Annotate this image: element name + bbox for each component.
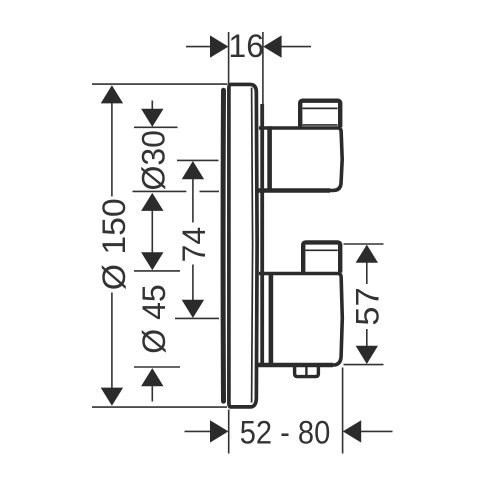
arrowhead O45 bottom [141, 368, 163, 386]
arrowhead O150 top [101, 85, 123, 103]
lower handle cap [303, 242, 340, 272]
dim 16 leader left [186, 46, 211, 48]
upper cap bottom line [303, 124, 338, 126]
svg-text:Ø 150: Ø 150 [96, 198, 132, 290]
lower handle body bottom edge [257, 363, 334, 367]
lower cap inner line [305, 249, 337, 251]
dim O45 tick top [134, 270, 180, 272]
svg-text:74: 74 [176, 227, 212, 263]
svg-text:57: 57 [350, 287, 386, 326]
dim O150 stem lower [111, 293, 113, 389]
svg-text:Ø30: Ø30 [136, 130, 172, 190]
arrowhead 52-80 left [210, 420, 228, 442]
dim 74 stem upper [192, 179, 194, 223]
dim O150 extension bottom [92, 406, 227, 408]
dim 16 extension line right [262, 32, 264, 121]
dim 52-80 leader left [185, 430, 211, 432]
arrowhead 16 right [263, 35, 281, 57]
dim O30 tick bottom right [200, 190, 220, 192]
dim 74 tick top [177, 159, 219, 161]
plate inner thin line [252, 88, 253, 403]
dim 57 tick top [344, 243, 384, 245]
arrowhead O30 top [141, 109, 163, 127]
svg-text:52 - 80: 52 - 80 [240, 415, 331, 451]
lower outlet notch [295, 365, 319, 376]
arrowhead 74 top [182, 161, 204, 179]
lower outlet notch divider [305, 364, 307, 376]
plate back sleeve line [260, 104, 264, 365]
dim 74 tick bottom [175, 317, 219, 319]
dim O150 extension top [92, 83, 227, 85]
arrowhead 57 top [356, 245, 378, 263]
upper handle body U1 [259, 128, 342, 190]
dim O30 tick bottom left [133, 190, 187, 192]
upper handle body bottom edge [257, 188, 330, 192]
dim O45 stem bottom [151, 386, 153, 401]
upper handle cap [300, 101, 340, 128]
plate outer face line [221, 90, 226, 401]
escutcheon plate outline [229, 84, 257, 406]
dim 74 stem lower [192, 265, 194, 301]
svg-text:16: 16 [228, 28, 264, 64]
dim O45 tick bottom [134, 366, 180, 368]
upper handle body inner edge [267, 126, 272, 192]
arrowhead 16 left [210, 35, 228, 57]
arrowhead O150 bottom [101, 388, 123, 406]
arrowhead O45 top [141, 252, 163, 270]
arrowhead 74 bottom [182, 300, 204, 318]
dim 16 leader right [281, 46, 311, 48]
arrowhead 52-80 right [343, 420, 361, 442]
dim 57 tick bottom [344, 364, 384, 366]
upper cap inner line [303, 107, 338, 109]
dim O30-O45 shared stem [151, 211, 153, 253]
dim 52-80 leader right [361, 430, 393, 432]
lower handle body [259, 274, 342, 366]
dim O30 tick top [134, 126, 178, 128]
dim O30 stem top [151, 101, 153, 110]
dim 57 stem upper [366, 262, 368, 284]
dim O150 stem upper [111, 103, 113, 197]
dim 52-80 extension right [342, 368, 344, 454]
arrowhead O30 bottom [141, 193, 163, 211]
dim 57 stem lower [366, 329, 368, 346]
lower handle body inner edge [269, 274, 274, 366]
dim 16 extension line left [228, 32, 230, 87]
dim 52-80 extension left [228, 410, 230, 454]
arrowhead 57 bottom [356, 346, 378, 364]
svg-text:Ø 45: Ø 45 [136, 284, 172, 353]
